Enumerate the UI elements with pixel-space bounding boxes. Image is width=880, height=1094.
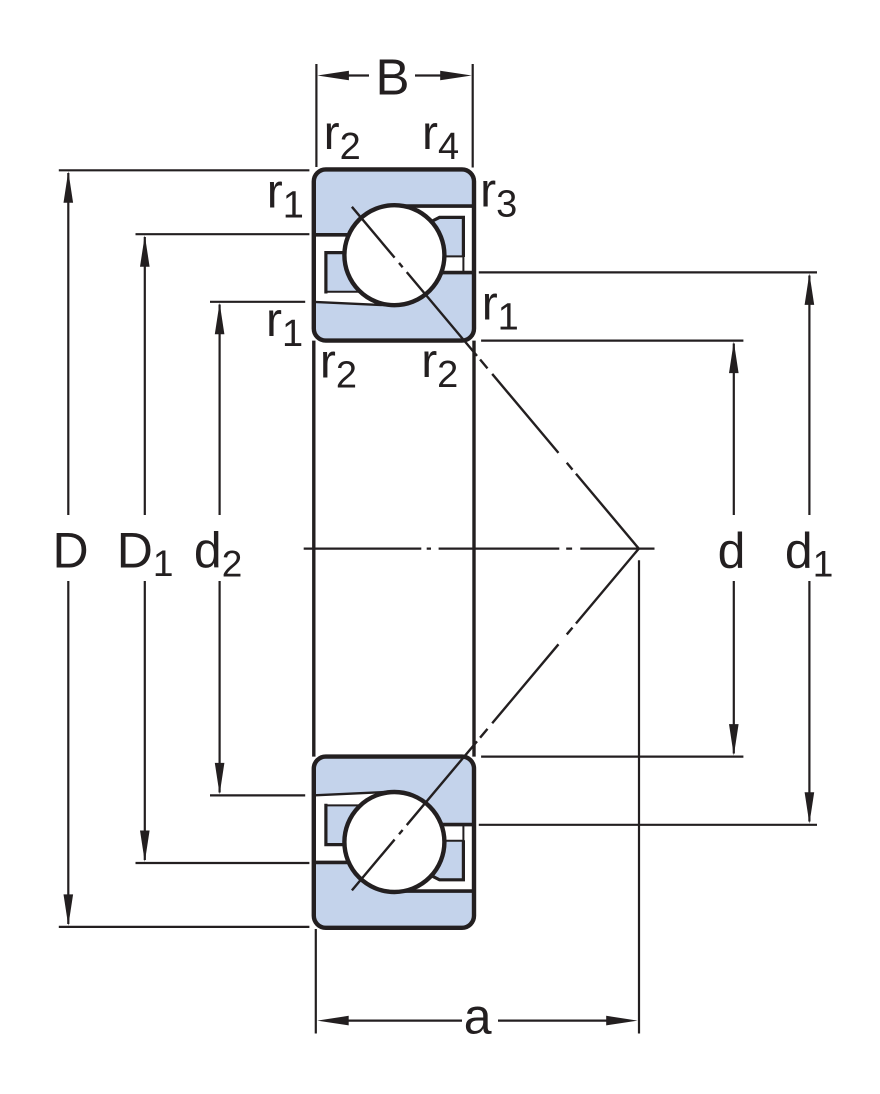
svg-text:r2: r2 [324,107,361,168]
cage right bottom thin line (mirrored) [444,840,463,842]
cage right lower thin vertical (mirrored) [462,825,464,841]
arrow D top [64,171,74,203]
svg-text:r2: r2 [421,335,458,396]
inner ring shoulder line right (mirrored) [441,823,476,827]
dim line D1 [144,237,146,860]
inner ring shoulder line right [441,271,476,275]
cage right lower thin vertical [462,256,464,272]
svg-text:D1: D1 [117,523,174,585]
outer ring shoulder line left [312,233,349,237]
cage left bottom thin line (mirrored) [326,804,360,806]
svg-text:D: D [52,523,88,579]
cage left segment fill [326,253,360,292]
dim line d2 [219,305,221,793]
cage right bottom thin line [444,255,463,257]
ext line B right [472,64,474,168]
ext line a right [638,560,640,1033]
svg-text:d2: d2 [194,523,242,585]
bearing outline (mirrored) [314,757,474,928]
arrow d bottom [729,724,739,756]
svg-text:d: d [718,523,746,579]
cage left outline [326,253,346,294]
ext line B left [315,64,317,167]
dim line B [347,74,442,76]
svg-text:r1: r1 [267,166,304,227]
ext line d1 top [479,271,817,273]
svg-text:r1: r1 [482,278,519,339]
svg-text:r1: r1 [266,294,303,355]
inner ring fill [314,273,474,341]
svg-text:r3: r3 [480,165,517,226]
arrow D1 top [140,235,150,267]
ball [344,205,444,305]
outer ring shoulder line right [404,204,476,208]
contact angle line top [352,207,639,549]
outer ring shoulder line left (mirrored) [312,861,349,865]
ext line d1 bottom [479,824,817,826]
arrow d top [729,342,739,374]
arrow d1 top [805,273,815,305]
arrow d2 top [215,303,225,335]
inner ring counterbore slope line [312,302,394,306]
arrow B left [317,71,349,81]
contact angle line bottom [352,549,639,891]
inner ring counterbore slope line (mirrored) [312,792,394,796]
arrowheads [64,71,815,1026]
cage left bottom thin line [326,291,360,293]
dimension lines [59,64,817,1034]
ext line d2 top [210,301,305,303]
bore cylinder line right between bearings [472,341,475,757]
inner ring fill (mirrored) [314,757,474,825]
center line (horizontal axis, dash-dot) [304,547,655,549]
bottom bearing section (mirror of top) [312,757,476,928]
arrow B right [440,71,472,81]
dim line d [733,344,735,754]
cage left outline (mirrored) [326,804,346,845]
svg-text:r2: r2 [320,336,357,397]
arrow a left [317,1016,349,1026]
bore cylinder line left between bearings [312,341,315,757]
arrow d2 bottom [215,763,225,795]
ext line D1 top [136,233,310,235]
svg-text:r4: r4 [422,107,459,168]
top bearing section [312,169,476,340]
outer ring shoulder line right (mirrored) [404,889,476,893]
ball (mirrored) [344,792,444,892]
dim line D [67,173,69,924]
dim line d1 [808,276,810,822]
ext line D1 bottom [136,862,310,864]
ext line d top [481,340,743,342]
svg-text:d1: d1 [785,523,833,585]
outer ring fill (mirrored) [314,862,474,927]
outer ring fill [314,169,474,234]
cage right outline (mirrored) [430,840,463,880]
ext line D top [59,169,310,171]
arrow D bottom [64,894,74,926]
cage right segment fill [431,217,463,256]
svg-text:B: B [375,49,409,106]
arrow a right [606,1016,638,1026]
cage right segment fill (mirrored) [431,841,463,880]
arrow D1 bottom [140,831,150,863]
bearing outline [314,169,474,340]
ext line D bottom [59,926,310,928]
svg-text:a: a [464,988,492,1044]
ext line d2 bottom [210,794,305,796]
arrow d1 bottom [805,792,815,824]
ext line a left [315,929,317,1034]
cage left segment fill (mirrored) [326,805,360,844]
ext line d bottom [481,755,743,757]
dim line a [348,1019,607,1021]
cage right outline [430,217,463,257]
